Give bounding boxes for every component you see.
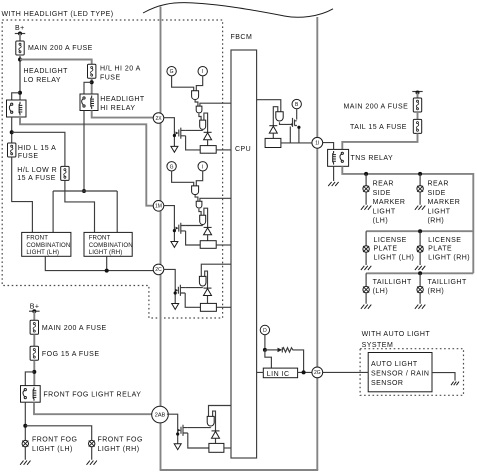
svg-text:PLATE: PLATE	[374, 246, 398, 253]
svg-text:I: I	[202, 164, 203, 170]
svg-text:H/L LOW R: H/L LOW R	[17, 167, 57, 174]
svg-text:LICENSE: LICENSE	[374, 237, 407, 244]
svg-text:LIGHT (RH): LIGHT (RH)	[89, 249, 123, 256]
svg-text:LIGHT: LIGHT	[428, 208, 451, 215]
svg-text:LICENSE: LICENSE	[428, 237, 461, 244]
svg-text:FUSE: FUSE	[100, 74, 121, 81]
svg-text:TAILLIGHT: TAILLIGHT	[373, 279, 412, 286]
svg-text:WITH AUTO LIGHT: WITH AUTO LIGHT	[362, 331, 431, 338]
svg-text:FOG 15 A FUSE: FOG 15 A FUSE	[42, 351, 100, 358]
svg-text:1M: 1M	[155, 204, 162, 210]
svg-text:HI RELAY: HI RELAY	[100, 105, 135, 112]
svg-text:2G: 2G	[314, 370, 321, 376]
svg-text:SENSOR: SENSOR	[371, 380, 403, 387]
svg-text:HEADLIGHT: HEADLIGHT	[24, 68, 69, 75]
svg-text:COMBINATION: COMBINATION	[26, 242, 70, 249]
svg-text:HEADLIGHT: HEADLIGHT	[100, 96, 145, 103]
svg-text:2C: 2C	[155, 267, 162, 273]
svg-text:TNS RELAY: TNS RELAY	[351, 155, 394, 162]
svg-text:I: I	[202, 69, 203, 75]
svg-text:LIGHT (LH): LIGHT (LH)	[32, 446, 73, 453]
svg-text:2AB: 2AB	[155, 413, 166, 419]
svg-text:MAIN 200 A FUSE: MAIN 200 A FUSE	[344, 103, 409, 110]
svg-text:TAILLIGHT: TAILLIGHT	[428, 279, 467, 286]
svg-text:LIGHT (LH): LIGHT (LH)	[374, 255, 415, 262]
svg-text:REAR: REAR	[373, 181, 394, 188]
svg-text:HID L 15 A: HID L 15 A	[18, 145, 56, 152]
svg-text:LIGHT (RH): LIGHT (RH)	[428, 255, 470, 262]
svg-text:G: G	[170, 164, 174, 170]
svg-text:MAIN 200 A FUSE: MAIN 200 A FUSE	[28, 45, 93, 52]
svg-text:AUTO LIGHT: AUTO LIGHT	[371, 361, 418, 368]
svg-text:FRONT FOG: FRONT FOG	[32, 437, 77, 444]
svg-text:COMBINATION: COMBINATION	[89, 242, 133, 249]
svg-text:B+: B+	[15, 25, 25, 32]
svg-text:(LH): (LH)	[373, 288, 389, 295]
svg-text:FRONT FOG: FRONT FOG	[98, 437, 143, 444]
svg-text:FRONT FOG LIGHT RELAY: FRONT FOG LIGHT RELAY	[43, 391, 141, 398]
svg-text:PLATE: PLATE	[428, 246, 452, 253]
svg-text:LIGHT (LH): LIGHT (LH)	[26, 249, 59, 256]
svg-text:1I: 1I	[315, 141, 319, 147]
svg-text:SIDE: SIDE	[373, 190, 391, 197]
svg-text:2X: 2X	[155, 116, 162, 122]
svg-text:G: G	[170, 69, 174, 75]
svg-text:SENSOR / RAIN: SENSOR / RAIN	[371, 371, 429, 378]
svg-text:MARKER: MARKER	[373, 199, 406, 206]
svg-text:(RH): (RH)	[428, 218, 445, 225]
svg-text:MARKER: MARKER	[428, 199, 461, 206]
svg-text:CPU: CPU	[235, 146, 251, 153]
svg-text:LIGHT: LIGHT	[373, 208, 396, 215]
svg-text:FBCM: FBCM	[231, 34, 253, 41]
svg-text:REAR: REAR	[428, 181, 449, 188]
svg-text:MAIN 200 A FUSE: MAIN 200 A FUSE	[42, 325, 107, 332]
svg-text:H/L HI 20 A: H/L HI 20 A	[100, 65, 141, 72]
svg-text:WITH HEADLIGHT (LED TYPE): WITH HEADLIGHT (LED TYPE)	[2, 11, 114, 18]
svg-text:FRONT: FRONT	[89, 234, 111, 241]
svg-text:SIDE: SIDE	[428, 190, 446, 197]
svg-text:LIN IC: LIN IC	[267, 371, 290, 378]
svg-text:LIGHT (RH): LIGHT (RH)	[98, 446, 140, 453]
svg-text:FUSE: FUSE	[18, 153, 39, 160]
svg-text:D: D	[263, 328, 267, 334]
svg-text:(LH): (LH)	[373, 218, 389, 225]
svg-text:LO RELAY: LO RELAY	[24, 77, 62, 84]
svg-text:(RH): (RH)	[428, 288, 445, 295]
svg-text:FRONT: FRONT	[26, 234, 48, 241]
svg-text:15 A FUSE: 15 A FUSE	[17, 175, 56, 182]
svg-text:TAIL 15 A FUSE: TAIL 15 A FUSE	[350, 124, 407, 131]
svg-text:SYSTEM: SYSTEM	[362, 342, 394, 349]
